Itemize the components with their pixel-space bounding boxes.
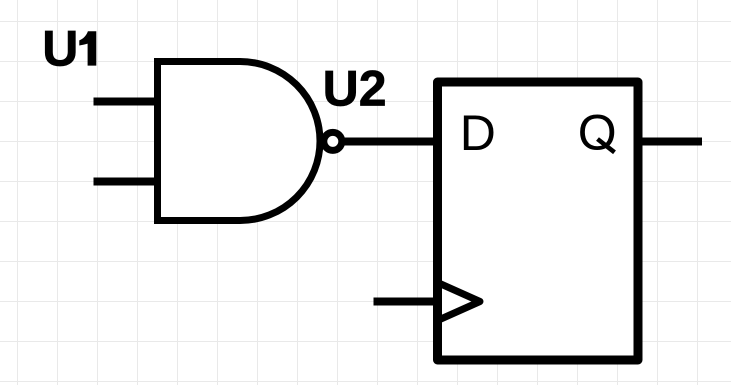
wire NAND output to D input <box>345 138 439 146</box>
wire clock input <box>374 298 439 306</box>
D flip-flop U2 body <box>438 82 639 360</box>
NAND output bubble <box>324 132 342 150</box>
wire input A of U1 <box>94 98 158 106</box>
clock edge triangle <box>438 283 481 321</box>
NAND gate U1 <box>158 62 321 221</box>
svg-text:D: D <box>460 105 496 161</box>
wire Q output <box>642 138 702 146</box>
svg-text:U: U <box>42 21 78 77</box>
svg-text:U2: U2 <box>323 60 387 116</box>
wire input B of U1 <box>94 178 158 186</box>
